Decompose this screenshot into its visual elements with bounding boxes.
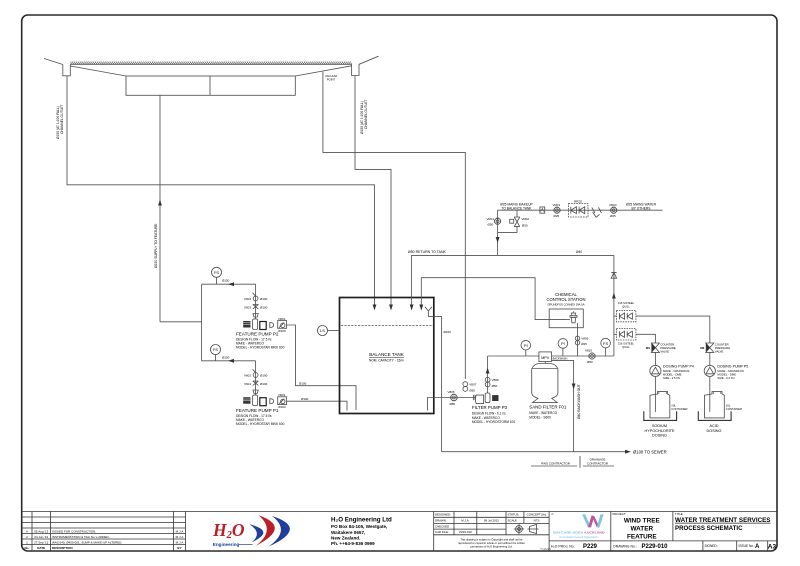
svg-text:316 S/STEEL: 316 S/STEEL — [618, 301, 635, 305]
pump P1 outlet cup — [270, 399, 274, 404]
wire: P1 suction drop — [255, 361, 257, 396]
arrow into tank from left outlet line — [373, 305, 377, 311]
filter pump P3 body — [473, 395, 475, 400]
wire: quill2 to dosing pump P4 — [614, 333, 617, 335]
svg-text:ISSUE No.:: ISSUE No.: — [739, 544, 755, 548]
svg-text:M.J.A: M.J.A — [176, 529, 184, 533]
svg-text:RPZD: RPZD — [574, 199, 583, 203]
wire: filtered water main — [488, 355, 539, 357]
svg-text:permission of H₂O Engineering: permission of H₂O Engineering Ltd. — [470, 544, 512, 548]
svg-text:MODEL - HYDROSTAR MKIII 600: MODEL - HYDROSTAR MKIII 600 — [236, 345, 285, 349]
projection symbols — [514, 524, 539, 534]
svg-text:STATUS:: STATUS: — [508, 513, 520, 517]
channel outlet label left — [56, 104, 64, 139]
svg-text:SIZE - 0.2 l/hr: SIZE - 0.2 l/hr — [717, 376, 734, 380]
designed/drawn table — [434, 512, 552, 552]
svg-text:Ø150 SUPPLY TO FEATURE: Ø150 SUPPLY TO FEATURE — [154, 223, 158, 268]
pond rim hatched top — [70, 63, 351, 65]
svg-text:Ø150: Ø150 — [222, 279, 230, 283]
svg-text:FEATURE: FEATURE — [627, 534, 657, 541]
balance tank — [340, 298, 434, 414]
pump P1 coupling cylinder — [253, 395, 258, 406]
svg-text:©Copyright: ©Copyright — [540, 548, 551, 551]
svg-text:A: A — [26, 529, 28, 533]
pond left rim slant — [44, 59, 63, 65]
counter pressure valve P5 — [706, 343, 714, 352]
dosing pump P5 — [704, 365, 715, 376]
svg-text:V808: V808 — [492, 378, 499, 382]
injection quill 1 (acid) — [616, 310, 636, 321]
svg-text:M.J.A.: M.J.A. — [461, 519, 469, 523]
arrow left on P2 header — [228, 282, 234, 286]
filter pump P3 motor — [492, 395, 498, 401]
svg-text:MODEL - HYDROSTORM 100: MODEL - HYDROSTORM 100 — [472, 420, 515, 424]
wire: P3 discharge riser — [487, 356, 489, 393]
svg-text:Ø100: Ø100 — [278, 405, 286, 409]
svg-text:WIND TREE: WIND TREE — [624, 518, 661, 525]
svg-text:MX: MX — [646, 346, 650, 350]
svg-text:CONTAINER: CONTAINER — [726, 407, 742, 411]
svg-text:DRAWING No.:: DRAWING No.: — [613, 545, 636, 549]
svg-text:M.J.A: M.J.A — [176, 540, 184, 544]
svg-text:CONTRACTOR: CONTRACTOR — [587, 462, 609, 466]
svg-text:CAD FILE:: CAD FILE: — [435, 530, 449, 534]
svg-text:Ø100: Ø100 — [301, 397, 309, 401]
svg-text:NOM. CAPACITY - 15m³: NOM. CAPACITY - 15m³ — [369, 359, 404, 363]
bund P5 — [698, 411, 731, 420]
dosing pump P4 — [650, 365, 661, 376]
svg-text:VALVE: VALVE — [660, 350, 669, 354]
svg-text:Ø25: Ø25 — [554, 214, 560, 218]
svg-text:Ø100: Ø100 — [299, 381, 307, 385]
wire: dosing riser — [613, 255, 615, 356]
reducer fitting — [253, 314, 258, 318]
supply riser label — [154, 223, 158, 268]
svg-text:27.Sep.'12: 27.Sep.'12 — [34, 540, 49, 544]
svg-text:QUILL: QUILL — [622, 345, 630, 349]
svg-text:Ø100: Ø100 — [260, 305, 268, 309]
valve V601 — [253, 381, 259, 385]
wire: backwash out — [552, 360, 574, 451]
svg-text:PI: PI — [524, 343, 528, 348]
svg-text:05.Aug.'13: 05.Aug.'13 — [34, 529, 49, 533]
wire: makeup bypass — [498, 227, 517, 233]
wire: vacuum point line to filter pump suction — [323, 72, 465, 379]
svg-text:FILTER PUMP P3: FILTER PUMP P3 — [472, 405, 508, 410]
valve V810 — [589, 353, 595, 359]
svg-text:BY OTHERS: BY OTHERS — [632, 207, 652, 211]
svg-text:P229: P229 — [583, 544, 598, 550]
svg-text:CHECKED: CHECKED — [435, 525, 449, 529]
svg-text:BY: BY — [177, 546, 181, 550]
svg-text:MX: MX — [700, 346, 704, 350]
svg-text:SIGNED:: SIGNED: — [705, 544, 718, 548]
wire: tank suction internal — [428, 398, 434, 411]
overflow Y strainer — [425, 307, 432, 317]
svg-text:SIZE - 2.5 l/hr: SIZE - 2.5 l/hr — [663, 376, 680, 380]
wire: tank to filter pump suction — [434, 397, 476, 399]
water meter — [540, 207, 545, 213]
svg-text:VR02: VR02 — [522, 217, 530, 221]
check valve on riser — [611, 272, 616, 278]
container P5 — [705, 392, 725, 418]
svg-text:09.Jul.2012: 09.Jul.2012 — [484, 519, 499, 523]
svg-text:QUILL: QUILL — [622, 304, 630, 308]
wire: quill1 to dosing pump P5 — [614, 315, 617, 317]
pump P2 casing — [260, 322, 266, 330]
svg-text:Ø100 TO SEWER: Ø100 TO SEWER — [633, 450, 667, 455]
valve VR04 — [611, 207, 617, 213]
valve V602 — [253, 373, 258, 378]
flow switch FS (P2) — [212, 267, 222, 277]
pond inner right slope — [295, 66, 351, 76]
svg-text:C: C — [552, 512, 554, 516]
svg-text:Ø100: Ø100 — [444, 330, 452, 334]
bund P4 — [644, 411, 677, 420]
wire: suction tube into container — [709, 377, 711, 412]
check valve VR01 (P1) — [278, 397, 287, 405]
svg-text:H₂O PROJ. No.:: H₂O PROJ. No.: — [551, 545, 576, 549]
arrow up on supply riser — [158, 200, 162, 206]
svg-text:Ø25: Ø25 — [610, 214, 616, 218]
svg-text:VR04: VR04 — [609, 203, 617, 207]
svg-text:CONTAINER: CONTAINER — [671, 407, 687, 411]
svg-text:PWS CONTRACTOR: PWS CONTRACTOR — [541, 462, 571, 466]
flow switch FS (P1) — [211, 345, 221, 355]
svg-text:NTS: NTS — [534, 519, 540, 523]
svg-text:VR01: VR01 — [278, 317, 286, 321]
pump P1 casing — [260, 398, 266, 406]
svg-text:DATE: DATE — [37, 546, 45, 550]
wire: P2 suction drop — [255, 284, 257, 319]
svg-text:CHANNEL OUTLET: CHANNEL OUTLET — [364, 99, 368, 129]
svg-text:Ø40: Ø40 — [576, 250, 582, 254]
pressure gauge PI (filter) — [558, 339, 568, 349]
svg-text:CHANNEL OUTLET: CHANNEL OUTLET — [60, 104, 64, 134]
valve V809 and chem branch — [577, 328, 579, 356]
H2O logo — [212, 515, 290, 547]
RPZD backflow preventer — [569, 204, 589, 218]
svg-text:V810: V810 — [585, 348, 592, 352]
svg-text:Ø50: Ø50 — [488, 222, 494, 226]
sensor fitting — [570, 311, 577, 317]
svg-text:DESCRIPTION: DESCRIPTION — [52, 546, 73, 550]
arrow up on riser — [486, 368, 490, 374]
sand filter vessel — [532, 364, 558, 403]
svg-text:LS: LS — [320, 328, 325, 333]
svg-text:FS: FS — [214, 270, 219, 275]
wire: P2 header — [202, 283, 256, 285]
title cell — [675, 512, 776, 551]
arrow up on riser — [612, 293, 616, 299]
svg-text:V806: V806 — [448, 390, 455, 394]
svg-text:PI: PI — [561, 341, 565, 346]
valve V604 — [253, 296, 258, 301]
svg-text:WATER TREATMENT SERVICES: WATER TREATMENT SERVICES — [675, 517, 771, 524]
valve VR03 — [554, 207, 560, 213]
svg-text:PROJECT:: PROJECT: — [613, 512, 627, 516]
svg-text:Ø80: Ø80 — [450, 402, 456, 406]
wire: P2 discharge to tank — [287, 325, 356, 410]
valve V807 — [463, 382, 468, 392]
valve V603 — [253, 305, 259, 309]
injection quill 2 (hypo) — [616, 329, 636, 340]
channel outlet label right — [360, 99, 368, 134]
level switch LS — [318, 326, 328, 336]
channel outlet left notch — [63, 65, 71, 76]
arrow down on makeup branch — [496, 237, 500, 243]
flow switch FS (filter) — [601, 338, 611, 348]
wire: MPV to filter neck — [544, 362, 546, 364]
wire: makeup branch down — [497, 210, 499, 255]
svg-text:V602: V602 — [244, 373, 251, 377]
valve V806 — [451, 394, 457, 400]
svg-text:WAS 040, Ø400-001, SUMP & MAKE: WAS 040, Ø400-001, SUMP & MAKE-UP ALTERE… — [52, 540, 122, 544]
svg-text:VR03: VR03 — [553, 203, 561, 207]
svg-text:V601: V601 — [244, 382, 251, 386]
wire: P1 discharge to tank — [287, 401, 347, 410]
svg-text:Ø100: Ø100 — [278, 329, 286, 333]
container P4 — [650, 392, 670, 418]
svg-text:ISSUED FOR CONSTRUCTION.: ISSUED FOR CONSTRUCTION. — [52, 529, 96, 533]
svg-text:PROCESS SCHEMATIC: PROCESS SCHEMATIC — [675, 525, 743, 532]
svg-text:Ø100: Ø100 — [260, 297, 268, 301]
channel outlet right notch — [352, 64, 359, 75]
wire: left channel outlet down — [67, 76, 375, 307]
pump P1 motor — [243, 397, 250, 404]
svg-text:BALANCE TANK: BALANCE TANK — [369, 352, 404, 357]
pump P2 motor — [243, 321, 250, 328]
svg-text:Ø100: Ø100 — [260, 382, 268, 386]
svg-text:POINT: POINT — [327, 78, 336, 82]
feature trough rectangle — [126, 76, 295, 95]
svg-text:P229-010: P229-010 — [642, 544, 669, 550]
svg-text:Ø25: Ø25 — [581, 342, 587, 346]
contractor divider — [579, 456, 581, 468]
wire: makeup main — [498, 209, 663, 211]
pump P2 coupling cylinder — [253, 319, 258, 330]
svg-text:CONTROL STATION: CONTROL STATION — [546, 297, 585, 302]
svg-text:MODEL - S600: MODEL - S600 — [529, 415, 551, 419]
svg-text:V603: V603 — [244, 305, 251, 309]
wire: supply riser to feature — [159, 95, 161, 321]
title block top line — [22, 511, 777, 513]
wire: filtered main after MPV — [552, 355, 614, 357]
svg-text:FS: FS — [603, 341, 608, 346]
svg-text:CHEMICAL: CHEMICAL — [555, 292, 577, 297]
svg-text:New Zealand.: New Zealand. — [331, 536, 360, 541]
svg-text:MAKE - WATERCO: MAKE - WATERCO — [529, 411, 557, 415]
chem station box — [549, 309, 583, 328]
valve VR01 (makeup) — [495, 218, 501, 224]
reducer fitting — [253, 390, 258, 394]
svg-text:This drawing is subject to Cop: This drawing is subject to Copyright and… — [460, 537, 523, 541]
svg-text:reproduced or copied in whole: reproduced or copied in whole or part wi… — [458, 541, 525, 545]
svg-text:TITLE:: TITLE: — [675, 512, 684, 516]
svg-text:ACID: ACID — [709, 424, 718, 428]
svg-text:VR01: VR01 — [487, 217, 495, 221]
wire: to pump P5 — [709, 352, 711, 365]
company address — [331, 516, 392, 546]
wire: to pump P4 — [654, 352, 656, 365]
arrow left on P1 header — [228, 359, 234, 363]
svg-text:FS: FS — [213, 347, 218, 352]
svg-text:Ø50: Ø50 — [492, 384, 498, 388]
svg-text:DOSING: DOSING — [707, 429, 722, 433]
svg-text:Ø100: Ø100 — [260, 373, 268, 377]
pond inner left slope — [70, 66, 126, 76]
svg-text:P229-010: P229-010 — [459, 530, 472, 534]
svg-text:A3: A3 — [768, 543, 777, 550]
svg-text:TO BALANCE TANK: TO BALANCE TANK — [501, 207, 532, 211]
svg-text:SCALE: SCALE — [508, 519, 518, 523]
wire: P1 header — [202, 360, 256, 362]
svg-text:WAI CARE-HORA AUCKLAND: WAI CARE-HORA AUCKLAND — [553, 530, 605, 534]
svg-text:MODEL - HYDROSTAR MKIII 600: MODEL - HYDROSTAR MKIII 600 — [236, 422, 285, 426]
revision table — [185, 512, 187, 552]
project cell — [613, 512, 673, 551]
wire: sewer — [442, 451, 627, 453]
svg-text:Engineering: Engineering — [213, 542, 240, 547]
svg-text:SAND FILTER F01: SAND FILTER F01 — [529, 405, 567, 410]
svg-text:FEATURE PUMP P1: FEATURE PUMP P1 — [236, 408, 279, 413]
svg-text:Ø50: Ø50 — [522, 223, 528, 227]
svg-text:SODIUM: SODIUM — [652, 424, 667, 428]
svg-text:DESIGNED:: DESIGNED: — [435, 513, 451, 517]
wire: suction tube into container — [654, 377, 656, 412]
pump P2 outlet cup — [270, 323, 274, 328]
watercare logo cell — [549, 512, 777, 552]
wire: sample return to tank — [421, 278, 566, 320]
check valve VR01 (P2) — [278, 321, 287, 329]
svg-text:V809: V809 — [581, 337, 588, 341]
svg-text:DRAWN:: DRAWN: — [435, 519, 447, 523]
svg-text:V807: V807 — [469, 383, 476, 387]
wire: return to tank — [412, 255, 614, 306]
svg-text:No.: No. — [24, 546, 29, 550]
svg-text:Waitakere 0657,: Waitakere 0657, — [331, 530, 365, 535]
trough divider — [209, 76, 211, 95]
svg-text:INSTRUMENTATION & TAG No.'s AD: INSTRUMENTATION & TAG No.'s ADDED. — [52, 535, 110, 539]
svg-text:MPV: MPV — [541, 356, 550, 360]
svg-text:316 S/STEEL: 316 S/STEEL — [618, 342, 635, 346]
svg-text:Ø40 BACKWASH OUT: Ø40 BACKWASH OUT — [577, 384, 581, 419]
air gap tundish — [592, 207, 602, 213]
counter pressure valve P4 — [651, 343, 659, 352]
svg-text:A: A — [755, 544, 760, 550]
svg-text:V604: V604 — [244, 297, 251, 301]
wire: pump header vertical — [201, 284, 203, 361]
svg-text:FEATURE PUMP P2: FEATURE PUMP P2 — [236, 331, 279, 336]
svg-text:WATER: WATER — [630, 526, 653, 533]
valve V808 — [485, 377, 490, 387]
wire: overflow to sewer — [428, 317, 441, 452]
svg-text:Ph. ++64-9-836 0999: Ph. ++64-9-836 0999 — [331, 541, 375, 546]
svg-text:An Auckland Council Organisati: An Auckland Council Organisation — [559, 535, 599, 539]
water level dashed — [341, 325, 433, 327]
svg-text:PO Box 84-105, Westgate,: PO Box 84-105, Westgate, — [331, 524, 387, 529]
svg-text:Ø50: Ø50 — [469, 389, 475, 393]
wire: right channel outlet down — [355, 76, 391, 307]
svg-text:CONCEPTUAL: CONCEPTUAL — [527, 513, 547, 517]
svg-text:GRUNDFOS CONNEX DIA-5A: GRUNDFOS CONNEX DIA-5A — [547, 303, 584, 307]
svg-text:Ø50: Ø50 — [587, 360, 593, 364]
wire: supply takeoff horizontal — [160, 321, 202, 323]
svg-text:M.J.A: M.J.A — [176, 535, 184, 539]
svg-text:H₂O Engineering Ltd: H₂O Engineering Ltd — [331, 516, 392, 523]
svg-text:Ø150: Ø150 — [222, 355, 230, 359]
svg-text:DOSING: DOSING — [652, 434, 667, 438]
W logo — [582, 514, 591, 527]
pressure gauge PI (pump) — [521, 340, 531, 350]
pond right rim slant — [359, 56, 379, 64]
svg-text:Ø50 RETURN TO TANK: Ø50 RETURN TO TANK — [408, 250, 447, 254]
solenoid float valve VR02 — [514, 217, 520, 227]
svg-text:HYPOCHLORITE: HYPOCHLORITE — [645, 429, 675, 433]
svg-text:VR01: VR01 — [278, 393, 286, 397]
svg-text:VALVE: VALVE — [715, 350, 724, 354]
MPV multiport valve — [539, 352, 552, 362]
arrow into tank from right outlet line — [389, 305, 393, 311]
svg-text:04.Jun.'13: 04.Jun.'13 — [34, 535, 48, 539]
